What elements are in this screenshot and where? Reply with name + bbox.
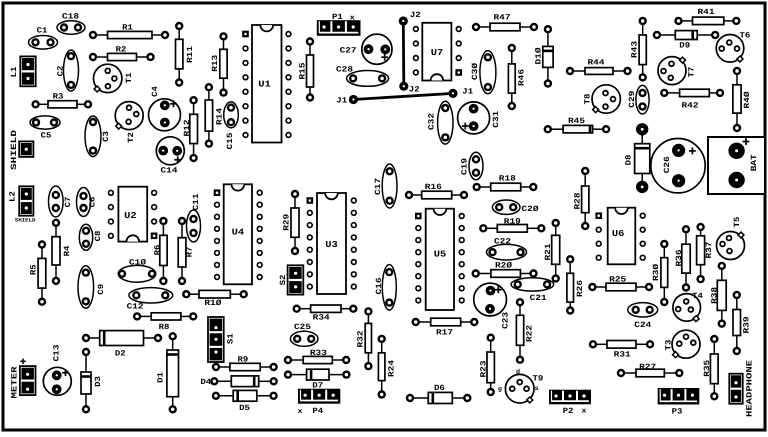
svg-text:C32: C32 [427, 113, 436, 130]
resistor R13 [211, 32, 228, 97]
svg-text:R32: R32 [357, 330, 366, 347]
label P3 [672, 407, 683, 416]
resistor R25 [588, 275, 653, 291]
svg-text:T8: T8 [583, 93, 592, 104]
svg-text:C25: C25 [294, 323, 311, 332]
capacitor C18 [57, 12, 85, 34]
transistor T2 [115, 102, 143, 143]
diode D5 [212, 390, 278, 413]
capacitor C6 [77, 188, 98, 217]
svg-text:R19: R19 [504, 218, 521, 227]
svg-text:C11: C11 [192, 193, 201, 210]
svg-text:C24: C24 [634, 321, 651, 330]
resistor R31 [589, 340, 654, 359]
svg-text:R18: R18 [499, 174, 516, 183]
svg-text:U7: U7 [431, 48, 444, 58]
svg-text:SHIELD: SHIELD [15, 218, 36, 224]
svg-text:R45: R45 [568, 117, 585, 126]
resistor R37 [696, 223, 714, 283]
resistor R27 [617, 363, 684, 377]
capacitor C5 [30, 116, 60, 141]
svg-text:C26: C26 [663, 156, 672, 173]
IC U7 [413, 23, 462, 81]
svg-text:C8: C8 [94, 230, 103, 241]
svg-text:C9: C9 [97, 284, 106, 295]
svg-text:L1: L1 [10, 66, 19, 77]
transistor T8 [583, 85, 620, 113]
resistor R20 [472, 261, 538, 277]
resistor R2 [89, 45, 155, 61]
resistor R28 [574, 167, 590, 230]
capacitor C30 [471, 51, 496, 94]
capacitor C22 [487, 238, 527, 260]
svg-text:J2: J2 [409, 86, 420, 95]
svg-text:R38: R38 [711, 287, 720, 304]
capacitor C4 [149, 86, 181, 131]
capacitor C14 [156, 137, 184, 176]
svg-text:R39: R39 [743, 316, 752, 333]
svg-text:R16: R16 [425, 183, 442, 192]
svg-text:R9: R9 [238, 355, 249, 364]
resistor R45 [544, 117, 611, 133]
svg-text:C15: C15 [226, 132, 235, 149]
transistor T4 [673, 292, 703, 322]
svg-text:C5: C5 [41, 132, 52, 141]
svg-text:J1: J1 [462, 88, 473, 97]
svg-text:U5: U5 [434, 250, 447, 260]
resistor R6 [153, 217, 167, 285]
resistor R8 [133, 312, 197, 332]
diode D6 [406, 384, 472, 404]
svg-text:R2: R2 [116, 45, 127, 54]
svg-text:R6: R6 [153, 244, 162, 255]
svg-text:T5: T5 [733, 216, 742, 227]
svg-text:C23: C23 [502, 312, 511, 329]
svg-text:C16: C16 [375, 277, 384, 294]
connector METER [10, 359, 35, 399]
resistor R46 [508, 44, 527, 110]
svg-text:C22: C22 [494, 238, 511, 247]
capacitor C3 [85, 116, 111, 157]
svg-text:R44: R44 [588, 58, 605, 67]
resistor R18 [473, 174, 538, 191]
svg-text:C31: C31 [492, 111, 501, 128]
svg-text:C19: C19 [461, 158, 470, 175]
capacitor C31 [458, 102, 502, 134]
svg-text:R17: R17 [436, 328, 453, 337]
svg-text:C6: C6 [88, 196, 97, 207]
capacitor C32 [427, 101, 453, 144]
capacitor C29 [628, 85, 649, 114]
svg-text:R5: R5 [29, 264, 38, 275]
transistor T3 [665, 330, 700, 358]
resistor R23 [479, 334, 495, 397]
capacitor C8 [79, 224, 103, 250]
svg-text:R34: R34 [313, 313, 330, 322]
capacitor C23 [474, 283, 511, 329]
capacitor C11 [187, 193, 202, 242]
svg-text:R23: R23 [479, 360, 488, 377]
resistor R22 [516, 298, 535, 364]
label P2 [563, 407, 588, 416]
svg-text:C1: C1 [37, 26, 48, 35]
capacitor C24 [628, 303, 658, 330]
svg-text:R29: R29 [282, 214, 291, 231]
capacitor C9 [78, 266, 106, 308]
diode D10 [535, 25, 553, 88]
svg-text:D6: D6 [434, 384, 445, 393]
resistor R17 [412, 318, 479, 338]
svg-text:BAT: BAT [750, 154, 759, 171]
resistor R41 [674, 8, 740, 25]
resistor R16 [405, 183, 468, 199]
capacitor C15 [224, 102, 239, 150]
capacitor C7 [49, 186, 73, 217]
IC U3 [307, 193, 357, 294]
svg-text:R12: R12 [183, 119, 192, 136]
connector L1 [10, 56, 36, 86]
svg-text:D1: D1 [156, 372, 165, 383]
resistor R35 [703, 335, 719, 401]
svg-text:R3Ø: R3Ø [652, 264, 661, 281]
svg-text:D1Ø: D1Ø [535, 47, 544, 64]
svg-text:T4: T4 [692, 292, 703, 301]
capacitor C19 [461, 152, 483, 180]
label P1 [332, 13, 356, 22]
resistor R10 [182, 290, 248, 308]
svg-text:R24: R24 [388, 360, 397, 377]
svg-text:C7: C7 [64, 196, 73, 207]
diode D2 [82, 331, 162, 359]
svg-text:D9: D9 [679, 42, 690, 51]
svg-text:R33: R33 [310, 349, 327, 358]
diode D7 [284, 369, 351, 390]
connector S1 [208, 317, 235, 362]
connector HEADPHONE [729, 360, 754, 417]
svg-text:R41: R41 [698, 8, 715, 17]
resistor R11 [175, 22, 195, 87]
diode D1 [156, 332, 178, 413]
svg-text:U6: U6 [612, 229, 625, 239]
resistor R4 [52, 219, 72, 285]
svg-text:R25: R25 [609, 275, 626, 284]
svg-text:R1: R1 [122, 23, 133, 32]
capacitor C1 [29, 26, 58, 49]
diode D3 [81, 348, 103, 414]
svg-text:S1: S1 [226, 333, 235, 344]
IC U2 [108, 187, 158, 242]
svg-text:g: g [498, 386, 502, 393]
capacitor C26 [651, 139, 705, 193]
IC U6 [595, 208, 646, 265]
resistor R19 [479, 218, 545, 233]
resistor R40 [733, 67, 752, 132]
resistor R32 [357, 307, 373, 370]
resistor R5 [29, 240, 46, 306]
svg-text:C12: C12 [127, 302, 144, 311]
svg-text:P4: P4 [312, 407, 323, 416]
transistor T1 [94, 64, 134, 92]
svg-text:P2: P2 [563, 407, 574, 416]
svg-text:HEADPHONE: HEADPHONE [745, 360, 754, 417]
resistor R34 [293, 305, 358, 323]
resistor R21 [544, 219, 560, 283]
resistor R7 [178, 217, 195, 285]
svg-text:R47: R47 [494, 13, 511, 22]
diode D8 [624, 123, 649, 193]
resistor R47 [472, 13, 538, 31]
svg-text:U2: U2 [124, 211, 137, 221]
resistor R44 [566, 58, 632, 75]
svg-text:R8: R8 [159, 323, 170, 332]
svg-text:R2Ø: R2Ø [495, 261, 512, 270]
svg-text:D8: D8 [624, 154, 633, 165]
resistor R43 [630, 17, 647, 82]
svg-text:C13: C13 [53, 344, 62, 361]
svg-text:T3: T3 [665, 339, 674, 350]
jumper wire J1 [336, 88, 473, 106]
svg-text:R4: R4 [63, 245, 72, 256]
resistor R1 [89, 23, 169, 39]
svg-text:C17: C17 [374, 178, 383, 195]
svg-text:R43: R43 [630, 41, 639, 58]
svg-text:J1: J1 [336, 96, 347, 105]
transistor T9 [498, 369, 544, 403]
resistor R36 [675, 225, 690, 292]
svg-text:D2: D2 [115, 350, 126, 359]
svg-text:T9: T9 [533, 375, 544, 384]
connector P2 [549, 390, 591, 405]
connector S2 [279, 265, 303, 294]
transistor T5 [717, 216, 745, 259]
svg-text:C18: C18 [62, 12, 79, 21]
capacitor C27 [340, 34, 392, 64]
svg-text:P3: P3 [672, 407, 683, 416]
connector P3 [658, 388, 700, 405]
svg-text:P1: P1 [332, 13, 343, 22]
svg-text:R4Ø: R4Ø [743, 91, 752, 108]
svg-text:T7: T7 [688, 66, 697, 77]
resistor R9 [212, 355, 278, 371]
svg-text:R36: R36 [675, 249, 684, 266]
IC U5 [415, 209, 465, 310]
svg-text:R28: R28 [574, 192, 583, 209]
connector L2 [9, 186, 34, 215]
svg-text:R1Ø: R1Ø [204, 299, 221, 308]
resistor R39 [733, 291, 752, 355]
capacitor C21 [511, 278, 554, 303]
svg-text:R21: R21 [544, 243, 553, 260]
svg-text:C27: C27 [340, 47, 357, 56]
capacitor C10 [118, 258, 156, 282]
capacitor C13 [43, 344, 71, 395]
label P4 [298, 407, 324, 416]
transistor T7 [658, 57, 697, 85]
svg-text:D4: D4 [200, 378, 211, 387]
svg-text:R11: R11 [186, 46, 195, 63]
label SHIELD (small) [15, 218, 36, 224]
svg-text:C1Ø: C1Ø [129, 258, 146, 267]
resistor R24 [378, 335, 397, 399]
svg-text:METER: METER [10, 366, 19, 398]
svg-text:d: d [516, 369, 520, 376]
svg-text:D3: D3 [94, 376, 103, 387]
capacitor C16 [375, 265, 396, 311]
connector P1 [317, 20, 361, 36]
svg-text:U1: U1 [258, 80, 271, 90]
svg-text:R42: R42 [682, 101, 699, 110]
svg-text:L2: L2 [9, 191, 18, 202]
svg-text:R3: R3 [53, 92, 64, 101]
svg-text:R13: R13 [211, 55, 220, 72]
svg-text:U4: U4 [232, 228, 245, 238]
svg-text:R7: R7 [185, 246, 194, 257]
diode D4 [200, 376, 278, 387]
svg-text:R15: R15 [298, 62, 307, 79]
resistor R26 [566, 255, 585, 315]
svg-text:C29: C29 [628, 90, 637, 107]
svg-text:C2: C2 [56, 65, 65, 76]
svg-text:C3Ø: C3Ø [471, 63, 480, 80]
IC U4 [214, 184, 263, 284]
svg-text:C14: C14 [161, 166, 178, 175]
diode D9 [653, 31, 720, 51]
jumper wire J2 [399, 11, 421, 94]
svg-text:R22: R22 [525, 325, 534, 342]
svg-text:s: s [535, 385, 539, 392]
connector P4 [298, 389, 340, 404]
svg-text:R26: R26 [576, 280, 585, 297]
resistor R42 [660, 89, 724, 111]
capacitor C25 [290, 323, 318, 346]
svg-text:C2Ø: C2Ø [522, 205, 539, 214]
svg-text:R35: R35 [703, 360, 712, 377]
svg-text:R46: R46 [517, 69, 526, 86]
svg-text:S2: S2 [279, 274, 288, 285]
svg-text:R31: R31 [614, 350, 631, 359]
svg-text:SHIELD: SHIELD [10, 130, 19, 170]
resistor R15 [298, 37, 314, 101]
svg-text:C28: C28 [336, 66, 353, 75]
svg-text:C3: C3 [102, 131, 111, 142]
capacitor C17 [374, 164, 397, 208]
resistor R30 [652, 240, 669, 306]
svg-text:R37: R37 [705, 241, 714, 258]
svg-text:C21: C21 [530, 294, 547, 303]
capacitor C28 [336, 66, 389, 87]
capacitor C12 [127, 288, 173, 312]
transistor T6 [716, 32, 750, 63]
connector SHIELD [10, 130, 34, 170]
svg-text:D5: D5 [239, 404, 250, 413]
resistor R12 [183, 96, 198, 162]
IC U1 [242, 25, 291, 143]
svg-text:U3: U3 [325, 240, 338, 250]
svg-text:T2: T2 [127, 132, 136, 143]
resistor R33 [284, 349, 351, 364]
resistor R38 [711, 262, 727, 328]
svg-text:R27: R27 [639, 363, 656, 372]
resistor R3 [31, 92, 92, 108]
resistor R14 [205, 83, 225, 148]
svg-text:J2: J2 [410, 11, 421, 20]
svg-text:T1: T1 [125, 72, 134, 83]
capacitor C2 [56, 50, 78, 91]
battery connector BAT [708, 137, 765, 194]
svg-text:C4: C4 [151, 86, 160, 97]
resistor R29 [282, 190, 299, 255]
svg-text:T6: T6 [740, 32, 751, 41]
capacitor C20 [492, 200, 538, 214]
